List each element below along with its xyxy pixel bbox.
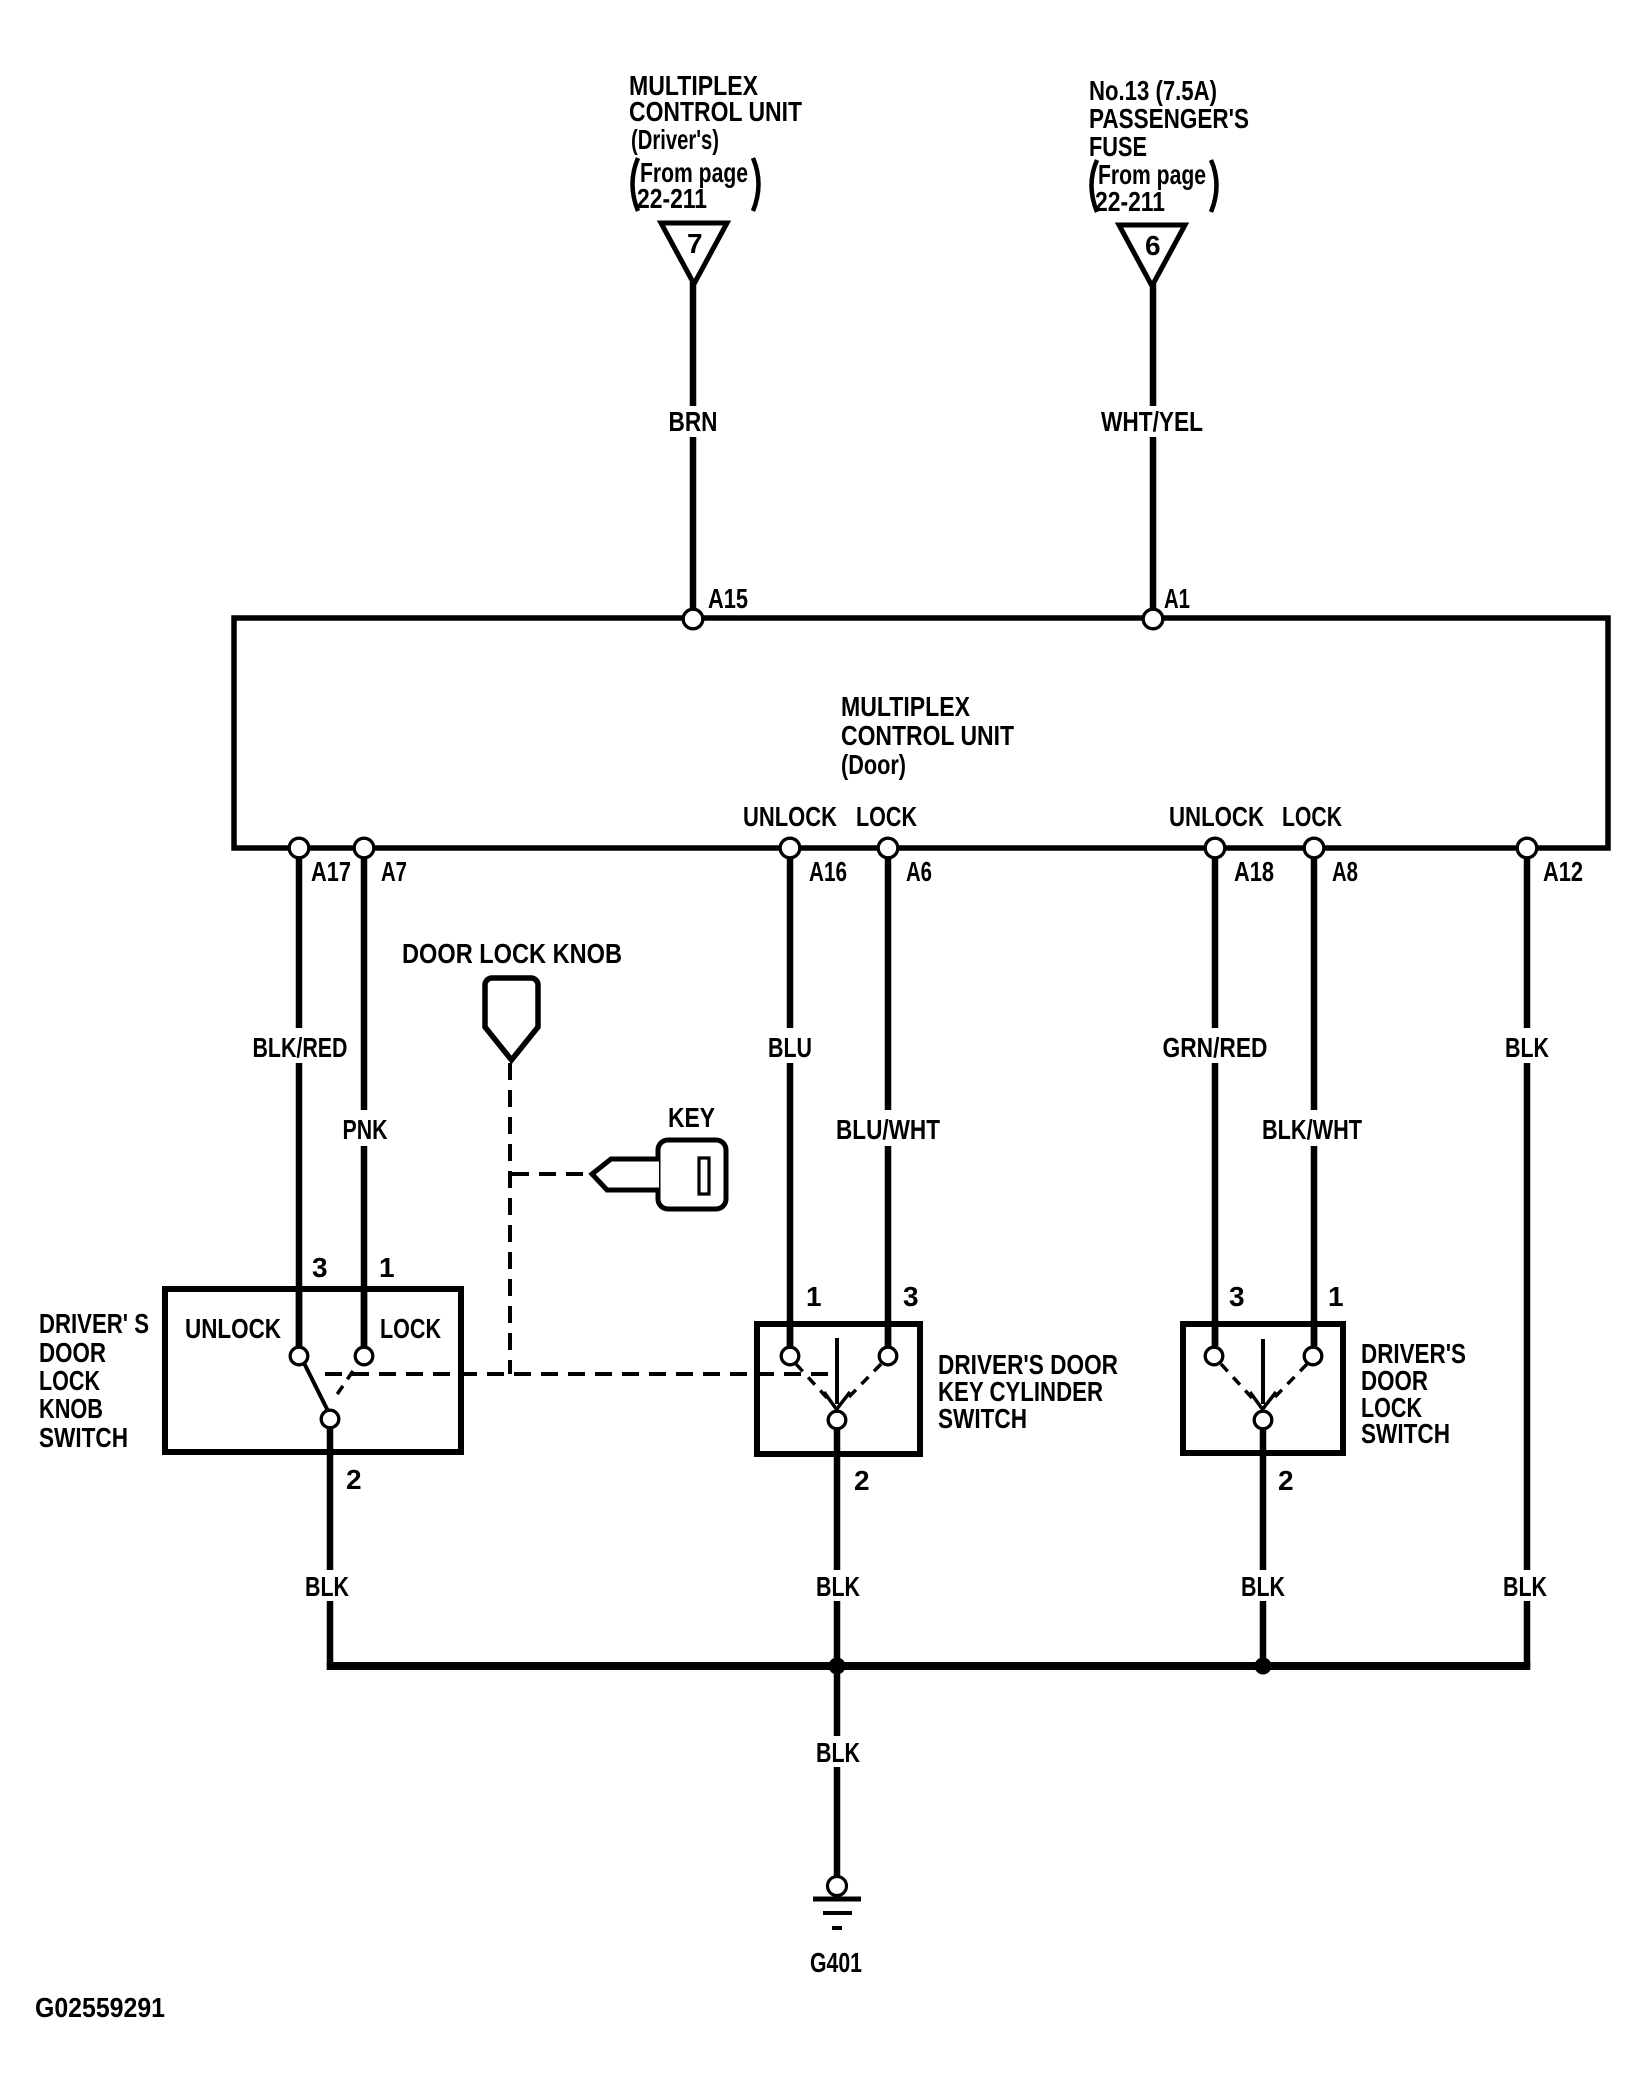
svg-text:PNK: PNK	[343, 1114, 388, 1145]
terminal A8	[1304, 838, 1324, 858]
svg-text:PASSENGER'S: PASSENGER'S	[1089, 103, 1249, 134]
svg-text:BLU/WHT: BLU/WHT	[836, 1114, 940, 1145]
svg-text:BLK/RED: BLK/RED	[253, 1032, 348, 1063]
svg-text:SWITCH: SWITCH	[1361, 1418, 1450, 1449]
svg-text:22-211: 22-211	[1095, 186, 1165, 217]
wire stub pin1 inside door lock switch	[1311, 1324, 1318, 1346]
ground symbol G401	[813, 1899, 861, 1928]
svg-text:6: 6	[1145, 230, 1161, 261]
label: MULTIPLEX CONTROL UNIT (Driver's) (From page 22-211)	[629, 70, 802, 214]
svg-text:BLK/WHT: BLK/WHT	[1262, 1114, 1362, 1145]
key cylinder switch dashed arm right	[847, 1364, 881, 1399]
label: DRIVER'S DOOR LOCK SWITCH	[1361, 1338, 1466, 1449]
door lock switch terminal pin 1	[1304, 1347, 1322, 1365]
svg-text:3: 3	[903, 1281, 919, 1312]
svg-text:G02559291: G02559291	[35, 1992, 165, 2023]
svg-text:LOCK: LOCK	[856, 801, 917, 832]
door lock switch dashed arm right	[1273, 1364, 1307, 1399]
wire BLK (bus to ground G401)	[834, 1666, 841, 1736]
svg-text:BLK: BLK	[1505, 1032, 1549, 1063]
svg-text:UNLOCK: UNLOCK	[1169, 801, 1264, 832]
junction dot (door lock switch branch)	[1255, 1658, 1272, 1675]
connector triangle 6 (from passenger's fuse)	[1119, 225, 1185, 286]
dashed mechanical link from key	[512, 1172, 588, 1176]
svg-text:(Door): (Door)	[841, 749, 906, 780]
wire BLK/WHT (A8 to door lock switch pin 1)	[1311, 859, 1318, 1110]
svg-text:No.13 (7.5A): No.13 (7.5A)	[1089, 75, 1217, 106]
knob switch contact arm (solid, unlock position)	[304, 1363, 328, 1411]
terminal A6	[878, 838, 898, 858]
door lock switch actuator line	[1261, 1339, 1265, 1404]
svg-text:A16: A16	[809, 856, 847, 887]
wire WHT/YEL (triangle 6 to terminal A1)	[1150, 284, 1157, 406]
terminal A16	[780, 838, 800, 858]
knob switch contact arm (dashed, lock position)	[336, 1371, 353, 1396]
switch S3: driver's door lock switch box	[1183, 1324, 1343, 1453]
wire stub pin3 inside knob switch	[296, 1289, 303, 1346]
knob switch common terminal (pin 2)	[321, 1410, 339, 1428]
svg-text:BLU: BLU	[768, 1032, 812, 1063]
svg-text:LOCK: LOCK	[39, 1365, 100, 1396]
svg-text:2: 2	[346, 1464, 362, 1495]
wire stub pin3 inside key cylinder switch	[885, 1324, 892, 1346]
key cylinder switch actuator line	[835, 1338, 839, 1404]
terminal A18	[1205, 838, 1225, 858]
wire BLU (A16 to key cylinder switch pin 1)	[787, 859, 794, 1028]
svg-text:BLK: BLK	[1503, 1571, 1547, 1602]
svg-text:DOOR LOCK KNOB: DOOR LOCK KNOB	[402, 938, 622, 969]
wire BLK (knob switch pin 2 down to bus)	[327, 1429, 334, 1570]
svg-text:BLK: BLK	[305, 1571, 349, 1602]
svg-text:SWITCH: SWITCH	[39, 1422, 128, 1453]
svg-text:LOCK: LOCK	[380, 1313, 441, 1344]
svg-text:GRN/RED: GRN/RED	[1163, 1032, 1268, 1063]
svg-text:BLK: BLK	[1241, 1571, 1285, 1602]
svg-text:1: 1	[1328, 1281, 1344, 1312]
svg-text:DRIVER' S: DRIVER' S	[39, 1308, 149, 1339]
svg-text:A7: A7	[381, 856, 407, 887]
svg-text:BRN: BRN	[669, 406, 718, 437]
key cylinder switch terminal pin 1	[781, 1347, 799, 1365]
door lock switch terminal pin 3	[1205, 1347, 1223, 1365]
terminal A15	[683, 609, 703, 629]
svg-text:A12: A12	[1543, 856, 1583, 887]
svg-text:UNLOCK: UNLOCK	[185, 1313, 281, 1344]
svg-text:A8: A8	[1332, 856, 1358, 887]
door lock switch dashed arm left	[1221, 1364, 1253, 1399]
svg-text:KNOB: KNOB	[39, 1393, 103, 1424]
svg-text:FUSE: FUSE	[1089, 131, 1147, 162]
door lock switch common terminal (pin 2)	[1254, 1411, 1272, 1429]
wire PNK (A7 to knob switch pin 1)	[361, 859, 368, 1110]
svg-text:22-211: 22-211	[637, 183, 707, 214]
switch S2: driver's door key cylinder switch box	[757, 1324, 920, 1454]
svg-text:3: 3	[1229, 1281, 1245, 1312]
svg-text:2: 2	[1278, 1465, 1294, 1496]
svg-text:BLK: BLK	[816, 1737, 860, 1768]
svg-text:A1: A1	[1164, 583, 1190, 614]
wire BLK (A12 to ground bus)	[1524, 859, 1531, 1028]
key cylinder switch common terminal (pin 2)	[828, 1411, 846, 1429]
key cylinder switch terminal pin 3	[879, 1347, 897, 1365]
label: DRIVER' S DOOR LOCK KNOB SWITCH	[39, 1308, 149, 1453]
svg-text:UNLOCK: UNLOCK	[743, 801, 837, 832]
svg-text:BLK: BLK	[816, 1571, 860, 1602]
terminal A17	[289, 838, 309, 858]
knob switch terminal unlock (pin 3)	[290, 1347, 308, 1365]
svg-text:A6: A6	[906, 856, 932, 887]
wire stub pin1 inside key cylinder switch	[787, 1324, 794, 1346]
svg-text:3: 3	[312, 1252, 328, 1283]
dashed mechanical link (knob/key to switches)	[325, 1372, 833, 1376]
wire stub pin1 inside knob switch	[361, 1289, 368, 1346]
connector triangle 7 (from driver's multiplex control unit)	[661, 223, 727, 284]
key cylinder switch arrowhead	[824, 1392, 850, 1410]
svg-text:A15: A15	[708, 583, 748, 614]
terminal A12	[1517, 838, 1537, 858]
ground bus wire	[327, 1662, 1531, 1670]
svg-text:2: 2	[854, 1465, 870, 1496]
terminal A7	[354, 838, 374, 858]
dashed mechanical link from door lock knob	[508, 1063, 512, 1374]
svg-text:CONTROL UNIT: CONTROL UNIT	[841, 720, 1014, 751]
wire stub pin3 inside door lock switch	[1212, 1324, 1219, 1346]
wire BLK (door lock switch pin 2 down to bus)	[1260, 1430, 1267, 1570]
junction dot (key cylinder branch)	[829, 1658, 846, 1675]
wire GRN/RED (A18 to door lock switch pin 3)	[1212, 859, 1219, 1028]
svg-text:1: 1	[806, 1281, 822, 1312]
wire BLK (key cylinder switch pin 2 down to bus)	[834, 1430, 841, 1570]
wire BLK/RED (A17 to knob switch pin 3)	[296, 859, 303, 1028]
wire BLU/WHT (A6 to key cylinder switch pin 3)	[885, 859, 892, 1110]
svg-text:G401: G401	[810, 1947, 862, 1978]
svg-text:DOOR: DOOR	[39, 1337, 106, 1368]
door lock switch arrowhead	[1250, 1392, 1276, 1410]
svg-text:WHT/YEL: WHT/YEL	[1101, 406, 1203, 437]
svg-text:(Driver's): (Driver's)	[631, 124, 719, 155]
svg-text:LOCK: LOCK	[1282, 801, 1342, 832]
terminal A1	[1143, 609, 1163, 629]
svg-text:CONTROL UNIT: CONTROL UNIT	[629, 96, 802, 127]
svg-text:KEY: KEY	[668, 1102, 715, 1133]
svg-text:SWITCH: SWITCH	[938, 1403, 1027, 1434]
svg-text:7: 7	[687, 228, 703, 259]
svg-text:A18: A18	[1234, 856, 1274, 887]
svg-text:A17: A17	[311, 856, 351, 887]
label: DRIVER'S DOOR KEY CYLINDER SWITCH	[938, 1349, 1118, 1434]
knob switch terminal lock (pin 1)	[355, 1347, 373, 1365]
ground terminal circle	[828, 1877, 847, 1896]
key symbol	[592, 1140, 726, 1209]
svg-text:MULTIPLEX: MULTIPLEX	[841, 691, 970, 722]
label: No.13 (7.5A) PASSENGER'S FUSE (From page 22-211)	[1089, 75, 1249, 217]
wire BRN (triangle 7 to terminal A15)	[690, 282, 697, 406]
svg-text:1: 1	[379, 1252, 395, 1283]
key cylinder switch dashed arm left	[796, 1364, 828, 1399]
door lock knob symbol	[485, 978, 538, 1060]
multiplex control unit (door) box U1	[234, 618, 1608, 848]
switch S1: driver's door lock knob switch box	[165, 1289, 461, 1452]
